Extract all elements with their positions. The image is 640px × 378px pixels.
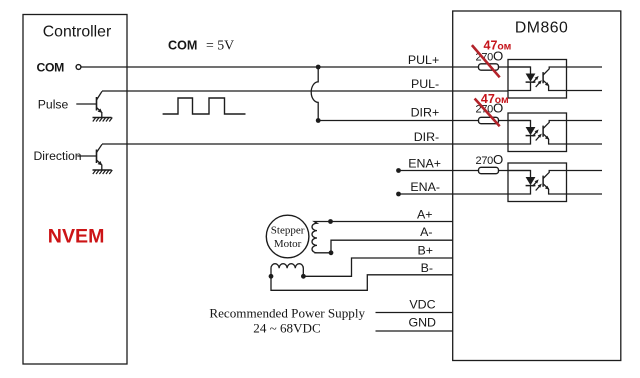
- wire VDC: [376, 312, 453, 314]
- opto-isolator U1 (PUL): [508, 60, 602, 99]
- red strikethrough over R1: [472, 45, 500, 77]
- svg-text:VDC: VDC: [409, 297, 435, 311]
- wire DIR- from Q2 collector: [102, 143, 508, 145]
- transistor Q2 (Direction) base wire: [77, 155, 96, 157]
- svg-text:Pulse: Pulse: [38, 98, 69, 112]
- svg-text:Motor: Motor: [274, 238, 302, 250]
- svg-text:47ом: 47ом: [481, 92, 509, 106]
- svg-text:Stepper: Stepper: [271, 224, 305, 236]
- wire ENA+: [399, 170, 531, 172]
- resistor R3 (ENA 270 ohm): [479, 167, 499, 173]
- COM open terminal circle: [76, 65, 81, 70]
- junction node DIR+: [316, 118, 321, 123]
- svg-text:DM860: DM860: [515, 20, 568, 37]
- transistor Q1 collector: [97, 91, 103, 100]
- junction node COM/DIR+ top: [316, 65, 321, 70]
- svg-text:COM: COM: [168, 38, 197, 52]
- opto-isolator U3 (ENA): [508, 163, 602, 202]
- controller box: [23, 15, 127, 365]
- wire B+: [303, 258, 452, 276]
- transistor Q2 emitter: [97, 160, 102, 165]
- svg-text:GND: GND: [408, 316, 436, 330]
- wire GND: [376, 330, 453, 332]
- square wave pulse train: [163, 98, 246, 114]
- svg-text:Recommended Power Supply: Recommended Power Supply: [209, 306, 365, 321]
- svg-text:DIR-: DIR-: [414, 130, 439, 144]
- wire B-: [271, 275, 453, 291]
- wire ENA-: [399, 193, 509, 195]
- terminal node ENA+: [396, 168, 401, 173]
- node B winding left: [269, 274, 274, 279]
- opto-isolator U2 (DIR): [508, 113, 602, 152]
- svg-text:B-: B-: [421, 261, 433, 275]
- terminal node ENA-: [396, 192, 401, 197]
- svg-text:ENA+: ENA+: [408, 157, 441, 171]
- motor winding B (horizontal coil): [271, 264, 303, 277]
- svg-text:A-: A-: [420, 225, 432, 239]
- svg-text:PUL-: PUL-: [411, 77, 439, 91]
- ground symbol Q2: [93, 170, 113, 174]
- wire A+: [331, 221, 453, 223]
- wire PUL- from Q1 collector: [102, 90, 508, 92]
- transistor Q1 emitter lead: [101, 112, 103, 118]
- ground symbol Q1: [93, 118, 113, 122]
- wire COM / PUL+: [81, 66, 530, 68]
- svg-text:47ом: 47ом: [484, 38, 512, 52]
- stepper motor body circle: [266, 215, 309, 258]
- DM860 box: [453, 11, 621, 361]
- transistor Q2 emitter arrowhead: [98, 161, 103, 165]
- svg-text:B+: B+: [417, 244, 433, 258]
- svg-text:= 5V: = 5V: [206, 38, 234, 53]
- svg-text:Direction: Direction: [34, 149, 82, 163]
- transistor Q2 collector: [97, 144, 103, 152]
- node B winding right: [301, 274, 306, 279]
- transistor Q2 base bar: [96, 150, 98, 164]
- svg-text:ENA-: ENA-: [410, 180, 440, 194]
- node A+: [328, 219, 333, 224]
- motor winding A (vertical coil): [312, 222, 331, 253]
- svg-text:270O: 270O: [476, 152, 503, 167]
- node A-: [329, 250, 334, 255]
- wire A-: [331, 240, 453, 253]
- svg-text:A+: A+: [417, 207, 433, 221]
- svg-text:DIR+: DIR+: [411, 106, 440, 120]
- wire COM to DIR+ vertical with hop over PUL-: [311, 67, 318, 121]
- svg-text:PUL+: PUL+: [408, 53, 439, 67]
- svg-text:NVEM: NVEM: [48, 225, 105, 247]
- wire DIR+: [318, 120, 530, 122]
- svg-text:COM: COM: [37, 60, 65, 74]
- transistor Q1 emitter arrowhead: [98, 109, 103, 113]
- transistor Q1 (Pulse) base wire: [76, 103, 96, 105]
- transistor Q1 emitter: [97, 108, 102, 113]
- red strikethrough over R2: [475, 99, 500, 127]
- resistor R1 (PUL 270 ohm): [479, 64, 499, 70]
- svg-text:Controller: Controller: [43, 23, 111, 40]
- transistor Q1 base bar: [96, 97, 98, 111]
- transistor Q2 emitter lead: [101, 165, 103, 171]
- svg-text:24 ~ 68VDC: 24 ~ 68VDC: [253, 321, 321, 336]
- resistor R2 (DIR 270 ohm): [479, 117, 499, 123]
